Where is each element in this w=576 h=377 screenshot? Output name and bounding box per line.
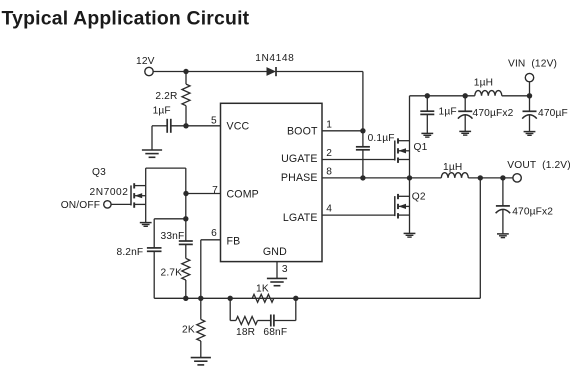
svg-text:8.2nF: 8.2nF — [117, 247, 144, 258]
svg-text:UGATE: UGATE — [281, 153, 317, 165]
svg-text:1N4148: 1N4148 — [255, 53, 294, 64]
svg-text:470µF: 470µF — [538, 108, 568, 119]
svg-text:1µF: 1µF — [439, 107, 457, 118]
svg-text:7: 7 — [212, 185, 218, 196]
svg-text:1K: 1K — [256, 284, 269, 295]
svg-text:12V: 12V — [136, 56, 155, 67]
svg-text:4: 4 — [326, 204, 332, 215]
svg-text:1µH: 1µH — [474, 78, 493, 89]
svg-text:VOUT (1.2V): VOUT (1.2V) — [507, 160, 571, 171]
svg-text:33nF: 33nF — [161, 231, 185, 242]
svg-text:1: 1 — [326, 119, 332, 130]
svg-text:1µF: 1µF — [153, 106, 171, 117]
svg-text:VIN (12V): VIN (12V) — [508, 58, 557, 69]
svg-text:1µH: 1µH — [443, 162, 462, 173]
svg-text:LGATE: LGATE — [283, 212, 318, 224]
svg-text:5: 5 — [211, 116, 217, 127]
svg-text:BOOT: BOOT — [287, 126, 318, 138]
svg-text:18R: 18R — [236, 327, 255, 338]
svg-text:ON/OFF: ON/OFF — [61, 200, 100, 211]
svg-text:8: 8 — [326, 167, 332, 178]
svg-text:Q2: Q2 — [412, 191, 426, 202]
svg-text:3: 3 — [282, 264, 288, 275]
svg-text:PHASE: PHASE — [281, 172, 318, 184]
svg-text:6: 6 — [211, 228, 217, 239]
svg-text:Typical Application Circuit: Typical Application Circuit — [2, 7, 250, 29]
svg-text:68nF: 68nF — [263, 327, 287, 338]
svg-text:Q1: Q1 — [414, 142, 428, 153]
svg-text:GND: GND — [263, 246, 287, 258]
svg-text:470µFx2: 470µFx2 — [512, 207, 553, 218]
svg-text:2.2R: 2.2R — [155, 91, 177, 102]
svg-text:2N7002: 2N7002 — [90, 187, 129, 198]
svg-text:2: 2 — [326, 148, 332, 159]
svg-text:Q3: Q3 — [92, 167, 106, 178]
svg-text:2.7K: 2.7K — [161, 267, 183, 278]
svg-text:FB: FB — [227, 236, 241, 248]
svg-text:2K: 2K — [182, 324, 195, 335]
svg-text:COMP: COMP — [227, 189, 259, 201]
svg-text:VCC: VCC — [227, 120, 250, 132]
svg-text:0.1µF: 0.1µF — [368, 133, 395, 144]
svg-text:470µFx2: 470µFx2 — [473, 108, 514, 119]
